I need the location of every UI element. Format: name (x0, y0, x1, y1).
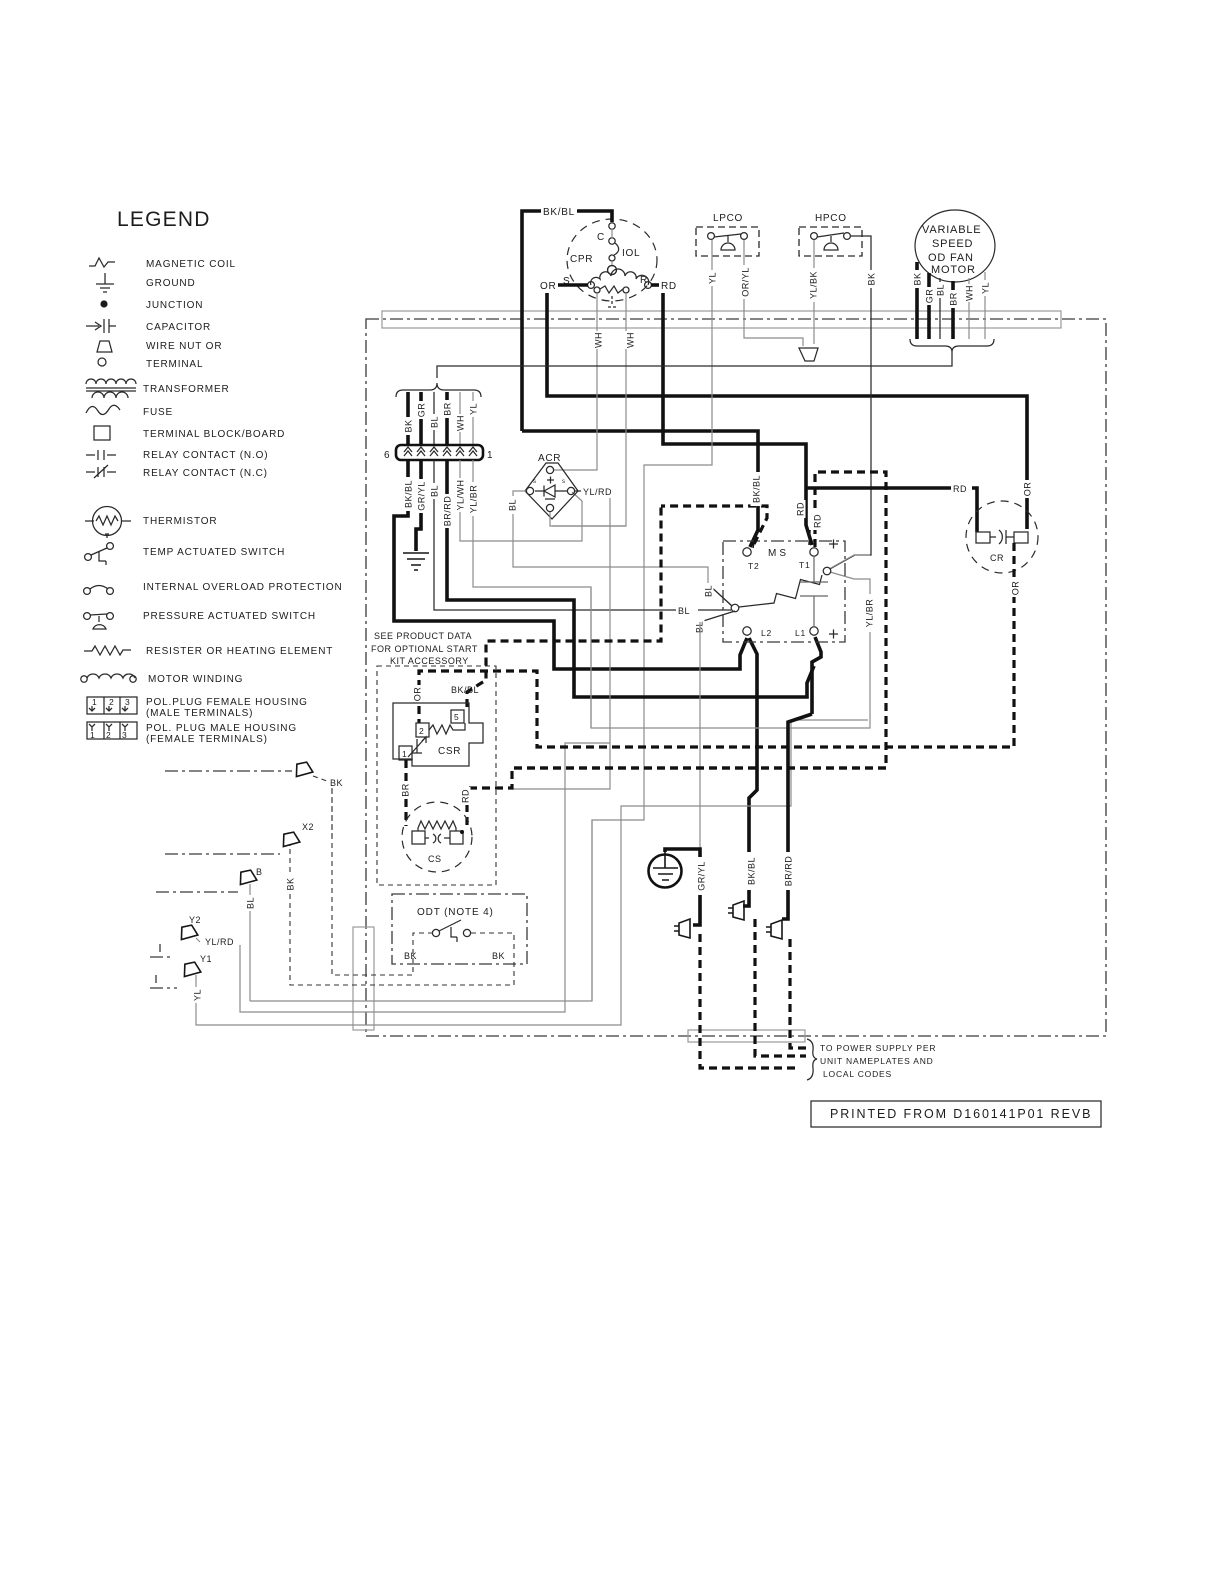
svg-text:VARIABLE: VARIABLE (922, 224, 981, 236)
svg-text:WIRE NUT OR: WIRE NUT OR (146, 341, 222, 352)
motor lead WH (964, 278, 975, 339)
LPCO pressure switch (696, 213, 759, 256)
svg-text:YL/WH: YL/WH (456, 479, 466, 510)
svg-text:YL/BR: YL/BR (865, 599, 875, 628)
svg-text:BK: BK (492, 951, 505, 961)
HPCO pressure switch (799, 213, 862, 256)
printed from box (811, 1101, 1101, 1127)
dashed BR/RD to power (790, 939, 806, 1048)
svg-text:3: 3 (125, 697, 131, 707)
start kit dashed enclosure (377, 666, 496, 885)
wire RD branch to CR (806, 481, 977, 532)
svg-text:POL. PLUG MALE HOUSING: POL. PLUG MALE HOUSING (146, 723, 297, 734)
svg-text:YL/RD: YL/RD (205, 937, 234, 947)
svg-text:BL: BL (430, 416, 440, 428)
6-pin polarized plug connector (384, 445, 493, 461)
svg-text:X2: X2 (302, 822, 314, 832)
wire BL from pin to MS junction (429, 460, 732, 616)
CSR relay housing (393, 703, 483, 766)
svg-text:1: 1 (92, 697, 98, 707)
wire OR/YL from LPCO (740, 240, 804, 346)
ODT defrost thermostat box (392, 894, 527, 964)
svg-text:CPR: CPR (570, 254, 593, 265)
compressor CPR/IOL dashed circle (563, 219, 657, 301)
svg-text:BK/BL: BK/BL (543, 207, 575, 218)
svg-text:PRINTED FROM D160141P01 REVB: PRINTED FROM D160141P01 REVB (830, 1107, 1092, 1121)
motor harness brace (910, 339, 994, 352)
svg-text:WH: WH (965, 285, 975, 301)
svg-text:1: 1 (487, 450, 493, 461)
dashed BK/BL into T2 (661, 472, 767, 544)
field wiring dash stub BK (165, 770, 292, 772)
svg-text:KIT ACCESSORY: KIT ACCESSORY (390, 656, 469, 666)
svg-text:INTERNAL OVERLOAD PROTECTION: INTERNAL OVERLOAD PROTECTION (143, 582, 343, 593)
svg-text:RESISTER OR HEATING ELEMENT: RESISTER OR HEATING ELEMENT (146, 646, 333, 657)
svg-text:CS: CS (428, 854, 442, 864)
svg-text:Y1: Y1 (200, 954, 212, 964)
svg-text:BR/RD: BR/RD (443, 496, 453, 527)
svg-text:6: 6 (384, 450, 390, 461)
legend: magnetic coil (89, 258, 236, 270)
svg-text:YL: YL (981, 282, 991, 294)
svg-text:C: C (597, 232, 605, 243)
svg-text:OR: OR (1011, 581, 1021, 596)
svg-text:CSR: CSR (438, 746, 461, 757)
motor lead BK (912, 262, 923, 339)
svg-text:OR: OR (413, 687, 423, 702)
svg-text:GR/YL: GR/YL (417, 481, 427, 511)
svg-text:MOTOR: MOTOR (931, 264, 976, 276)
svg-text:BK: BK (286, 877, 296, 890)
svg-text:MS: MS (768, 548, 789, 559)
dashed RD into T1 (510, 472, 886, 768)
svg-text:Y2: Y2 (189, 915, 201, 925)
MS coil (739, 575, 822, 607)
pass-through strap rectangle (353, 927, 374, 1030)
svg-text:POL.PLUG FEMALE HOUSING: POL.PLUG FEMALE HOUSING (146, 697, 308, 708)
svg-text:RD: RD (813, 514, 823, 528)
svg-text:BK: BK (913, 272, 923, 285)
wire YL/RD down to CS area (512, 498, 610, 789)
svg-text:YL/BK: YL/BK (809, 271, 819, 299)
wire YL/BR pin6 to MS coil arm (591, 555, 875, 728)
MS terminal L1 (810, 627, 818, 635)
svg-text:L2: L2 (761, 628, 772, 638)
legend: terminal (98, 358, 203, 370)
bottom field-wiring bus bar (688, 1030, 805, 1042)
MS movable contact arm (823, 567, 831, 575)
plug pin wire BK (403, 392, 414, 445)
label OR at CPR S (540, 281, 588, 292)
legend: fuse (86, 405, 173, 418)
legend: transformer (86, 379, 230, 398)
CSR terminal 2 (416, 723, 429, 737)
svg-text:TERMINAL: TERMINAL (146, 359, 203, 370)
svg-text:YL: YL (193, 989, 203, 1001)
CSR terminal 5 (451, 710, 464, 723)
wire BL from B nut (245, 884, 256, 1001)
BL junction and diagonals (694, 583, 739, 635)
wire YL/BR from pin 6 (468, 460, 592, 728)
dashed GR/YL to power (700, 934, 800, 1068)
motor lead GR (924, 273, 935, 339)
svg-text:LOCAL CODES: LOCAL CODES (823, 1069, 892, 1079)
svg-text:UNIT NAMEPLATES AND: UNIT NAMEPLATES AND (820, 1056, 934, 1066)
CPR internal overload (594, 286, 629, 307)
legend: resister or heating element (84, 646, 333, 657)
plug pin wire BL (429, 392, 440, 445)
svg-text:BK: BK (404, 951, 417, 961)
svg-text:BK/BL: BK/BL (451, 685, 479, 695)
svg-text:BL: BL (936, 284, 946, 296)
label OR at CSR (412, 685, 423, 703)
CSR variable contact (408, 737, 426, 757)
wire GR/YL from ground (665, 849, 707, 925)
legend: relay contact N.O (86, 450, 268, 461)
motor lead BR (948, 281, 959, 339)
svg-text:PRESSURE ACTUATED SWITCH: PRESSURE ACTUATED SWITCH (143, 611, 316, 622)
dashed OR from CR to CSR (419, 543, 1021, 747)
ground electrode circle (649, 852, 682, 888)
svg-text:YL: YL (469, 403, 479, 415)
wire BK from HPCO to MS arm (830, 236, 877, 569)
dashed ODT right lead to X2 (290, 846, 514, 985)
label YL/RD at ACR (575, 487, 612, 497)
svg-text:L1: L1 (795, 628, 806, 638)
svg-text:BL: BL (704, 585, 714, 597)
svg-text:BK/BL: BK/BL (404, 480, 414, 508)
svg-text:THERMISTOR: THERMISTOR (143, 516, 217, 527)
svg-text:BK/BL: BK/BL (747, 857, 757, 885)
dashed BK wire to ODT (331, 788, 333, 837)
svg-text:RD: RD (461, 789, 471, 803)
svg-text:2: 2 (109, 697, 115, 707)
svg-text:2: 2 (419, 726, 425, 736)
plug pin wire BR (442, 392, 453, 445)
wire YL/WH from pin to ACR right (455, 460, 583, 541)
wire nut joining OR/YL and YL/BK (799, 348, 818, 361)
dashed BK/BL to power (755, 919, 806, 1056)
main enclosure dash-dot border (366, 319, 1106, 1036)
wire BK/BL from MS L2 to nut (746, 852, 757, 890)
wire nut BR/RD (766, 920, 782, 939)
wire YL/BK from HPCO (808, 240, 819, 344)
field wiring dash stub B (156, 891, 238, 893)
wire OR at CR (1022, 480, 1033, 498)
svg-text:MAGNETIC COIL: MAGNETIC COIL (146, 259, 236, 270)
dashed ODT left lead to BK nut (332, 788, 433, 975)
svg-text:FUSE: FUSE (143, 407, 173, 418)
svg-text:RELAY CONTACT (N.C): RELAY CONTACT (N.C) (143, 468, 268, 479)
svg-text:2: 2 (106, 730, 112, 740)
svg-text:OR: OR (1023, 482, 1033, 497)
field wiring dash stub X2 (165, 853, 280, 855)
wire BL down to ground node (699, 622, 701, 849)
wire OR from S down and across to CR (547, 293, 1027, 529)
plug harness brace (396, 383, 481, 397)
field wiring dash stub Y2 (150, 944, 174, 957)
svg-text:TEMP ACTUATED SWITCH: TEMP ACTUATED SWITCH (143, 547, 285, 558)
dashed X2-BK wire label (285, 846, 296, 894)
wire nut Y1 (182, 954, 212, 977)
label YL at Y1 (192, 987, 203, 1003)
svg-text:s: s (562, 479, 565, 485)
svg-text:BL: BL (430, 485, 440, 497)
svg-text:LEGEND: LEGEND (117, 208, 211, 231)
legend: capacitor (86, 319, 211, 333)
svg-text:BL: BL (246, 897, 256, 909)
svg-text:SEE PRODUCT DATA: SEE PRODUCT DATA (374, 631, 472, 641)
svg-text:5: 5 (454, 712, 460, 722)
svg-text:OD FAN: OD FAN (928, 252, 974, 264)
harness line from motor to plug brace (437, 352, 952, 378)
svg-text:BL: BL (678, 606, 690, 616)
svg-text:GR: GR (925, 289, 935, 304)
plug pin wire GR (416, 392, 427, 445)
legend: relay contact N.C (86, 465, 268, 479)
plug pin wire YL (468, 392, 479, 445)
svg-text:SPEED: SPEED (932, 238, 973, 250)
CPR S and R terminals (588, 282, 595, 289)
legend: pol plug male housing (87, 722, 297, 745)
wire nut B (238, 867, 263, 885)
svg-text:BK: BK (404, 419, 414, 432)
legend: junction (100, 300, 203, 311)
legend: ground (96, 273, 196, 292)
dashed BR from CSR 1 to CS (400, 760, 411, 826)
svg-text:WH: WH (594, 332, 604, 348)
legend: motor winding (81, 674, 244, 685)
svg-text:WH: WH (626, 332, 636, 348)
svg-text:BL: BL (508, 499, 518, 511)
svg-text:BR/RD: BR/RD (784, 856, 794, 887)
legend: temp actuated switch (85, 543, 286, 565)
svg-text:T1: T1 (799, 560, 811, 570)
MS internal capacitor (800, 556, 828, 627)
svg-text:GR/YL: GR/YL (697, 861, 707, 891)
svg-text:TRANSFORMER: TRANSFORMER (143, 384, 230, 395)
svg-text:RELAY CONTACT (N.O): RELAY CONTACT (N.O) (143, 450, 268, 461)
svg-text:OR: OR (540, 281, 556, 292)
wire nut BK (294, 761, 343, 788)
legend: wire nut (97, 341, 222, 352)
legend: thermistor (85, 507, 217, 539)
power supply brace (807, 1039, 817, 1080)
legend: internal overload protection (84, 582, 343, 594)
wire BR/RD from MS L1 to nut (782, 714, 812, 919)
motor lead BL (935, 278, 946, 339)
dashed run T1-RD to CS (467, 768, 886, 829)
MS terminal L2 (743, 627, 751, 635)
dashed BK/BL from CSR 5 (451, 506, 661, 707)
plug pin wire WH (455, 392, 466, 445)
MS terminal T2 (743, 548, 751, 556)
wire WH from overload left to ACR + (554, 293, 604, 470)
CSR resistor (429, 723, 465, 734)
svg-text:WH: WH (456, 415, 466, 431)
ACR left BL lead (507, 491, 733, 606)
contactor MS box (723, 540, 845, 643)
start capacitor CS (402, 802, 472, 872)
svg-text:(MALE TERMINALS): (MALE TERMINALS) (146, 708, 253, 719)
wire YL from LPCO (250, 240, 718, 1001)
wire Y2 YL/RD run (240, 743, 610, 1012)
svg-text:LPCO: LPCO (713, 213, 743, 224)
relay CR dashed circle (966, 501, 1038, 573)
svg-text:OR/YL: OR/YL (741, 267, 751, 297)
svg-text:YL: YL (708, 272, 718, 284)
wire BK/BL from pin to MS L2 (394, 460, 757, 906)
label YL/RD at Y2 (196, 937, 240, 947)
wire BR/RD from pin to MS L1 (442, 460, 822, 714)
svg-text:RD: RD (796, 502, 806, 516)
svg-text:YL/BR: YL/BR (469, 485, 479, 514)
wire WH from overload right to ACR minus (552, 293, 636, 526)
svg-text:ACR: ACR (538, 453, 561, 464)
svg-text:CR: CR (990, 553, 1004, 563)
svg-text:BR: BR (949, 292, 959, 306)
wire BK/BL top with label (522, 207, 758, 548)
label RD at CPR R (651, 281, 677, 292)
top power bus bar (382, 311, 1061, 328)
field wiring dash stub Y1 (150, 975, 177, 988)
legend: pressure actuated switch (84, 611, 316, 629)
CPR motor winding arc (591, 269, 649, 285)
chassis ground symbol (403, 553, 429, 570)
svg-text:BK/BL: BK/BL (752, 475, 762, 503)
svg-text:GR: GR (417, 403, 427, 418)
wire nut Y2 (179, 915, 201, 940)
wire RD from R down to T1 (663, 293, 812, 545)
label RD at CS (460, 787, 471, 805)
wire Y1 YL run (196, 720, 868, 1025)
svg-text:CAPACITOR: CAPACITOR (146, 322, 211, 333)
svg-text:B: B (256, 867, 263, 877)
svg-text:JUNCTION: JUNCTION (146, 300, 203, 311)
motor lead YL (980, 272, 991, 339)
CSR terminal 1 (399, 746, 412, 760)
ACR rectifier diamond (525, 453, 578, 519)
svg-text:GROUND: GROUND (146, 278, 196, 289)
svg-text:TO POWER SUPPLY PER: TO POWER SUPPLY PER (820, 1043, 936, 1053)
wire nut GR/YL (674, 919, 690, 938)
svg-text:HPCO: HPCO (815, 213, 847, 224)
svg-text:IOL: IOL (622, 248, 640, 259)
wire B/BL via LPCO YL run (591, 820, 593, 1001)
svg-text:BK: BK (867, 272, 877, 285)
variable speed OD fan motor (915, 210, 995, 282)
wire nut BK/BL (728, 901, 744, 920)
svg-text:MOTOR WINDING: MOTOR WINDING (148, 674, 243, 685)
svg-text:(FEMALE TERMINALS): (FEMALE TERMINALS) (146, 734, 268, 745)
label RD at T1 solid (795, 500, 806, 518)
legend: pol plug female housing (87, 697, 308, 719)
svg-text:TERMINAL BLOCK/BOARD: TERMINAL BLOCK/BOARD (143, 429, 285, 440)
svg-text:1: 1 (402, 749, 408, 759)
CPR terminal C chain (608, 223, 619, 275)
ACR minus lead to WH (550, 512, 626, 526)
svg-text:BR: BR (401, 783, 411, 797)
svg-text:1: 1 (90, 730, 96, 740)
svg-text:YL/RD: YL/RD (583, 487, 612, 497)
svg-text:s: s (533, 479, 536, 485)
MS terminal T1 (810, 548, 818, 556)
svg-text:RD: RD (661, 281, 677, 292)
wire nut X2 (281, 822, 314, 847)
svg-text:BR: BR (443, 402, 453, 416)
legend: terminal block/board (94, 426, 285, 440)
svg-text:FOR OPTIONAL START: FOR OPTIONAL START (371, 644, 478, 654)
svg-text:ODT (NOTE 4): ODT (NOTE 4) (417, 907, 494, 918)
wire GR/YL from pin to chassis ground (416, 460, 427, 551)
svg-text:3: 3 (122, 730, 128, 740)
svg-text:RD: RD (953, 484, 967, 494)
svg-text:T2: T2 (748, 561, 760, 571)
svg-text:BK: BK (330, 778, 343, 788)
